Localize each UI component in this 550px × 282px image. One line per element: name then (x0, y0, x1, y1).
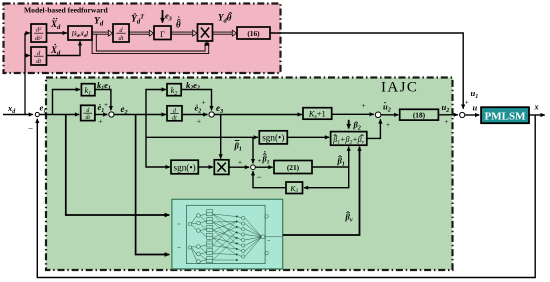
label xd (7, 103, 16, 115)
block sgn2 (171, 160, 198, 174)
label e1 (40, 103, 47, 115)
wire Xd-dot (47, 41, 81, 55)
svg-text:Γ: Γ (160, 29, 165, 39)
svg-text:(18): (18) (413, 111, 426, 120)
label e3 stub (165, 11, 172, 23)
label x (534, 103, 539, 112)
wire 21 to K3 (304, 167, 349, 188)
block mult2 (214, 160, 229, 175)
wire mult2 out (229, 166, 249, 168)
svg-text:+: + (386, 120, 390, 129)
label e1dot (98, 102, 105, 114)
block eq21 (274, 161, 312, 174)
svg-text:−: − (28, 124, 33, 134)
block k2 (167, 84, 181, 97)
plus above e3 (201, 98, 205, 107)
wire xd feed bus (25, 33, 30, 115)
NN internals (178, 210, 271, 264)
block d/dt g1 (81, 105, 95, 121)
wire e1 (40, 114, 79, 116)
wire e3 (214, 114, 301, 116)
block d2/dt2 (31, 24, 47, 42)
svg-text:+: + (238, 158, 242, 167)
block beta sum (331, 132, 367, 146)
wire K3 out (253, 171, 286, 188)
svg-text:β1+β2+βv: β1+β2+βv (332, 135, 364, 146)
svg-text:dt: dt (172, 115, 177, 121)
node beta1dot (251, 165, 256, 170)
minus e1 (28, 124, 33, 134)
label beta1hat (337, 156, 345, 168)
label u (473, 103, 478, 113)
plus beta1dot (257, 156, 261, 165)
block eq16 (237, 27, 270, 39)
label u2dot (383, 102, 391, 114)
label e3 (216, 103, 223, 115)
wire e1dot (95, 114, 107, 116)
wire e2 to k2 (146, 90, 166, 115)
svg-text:+: + (201, 98, 205, 107)
wire node to 18 (381, 114, 398, 116)
wire e2dot (182, 114, 208, 116)
wire k2e2 (181, 90, 211, 111)
svg-text:+: + (361, 101, 365, 110)
wire e3 stub (162, 10, 164, 23)
label Yd-theta (218, 12, 232, 24)
wire sgn2 out (198, 166, 213, 168)
NN hidden dots (236, 216, 238, 262)
plus under u2dot (386, 120, 390, 129)
IAJC box (46, 78, 453, 271)
svg-text:θ: θ (176, 20, 181, 30)
svg-text:dt: dt (86, 115, 91, 121)
wire u (465, 114, 479, 116)
svg-text:Model-based feedforward: Model-based feedforward (24, 6, 109, 15)
wire Xdd (47, 32, 67, 34)
wire u1 (270, 33, 463, 109)
svg-text:+: + (465, 98, 469, 107)
wire Yd double (92, 30, 113, 36)
label u1 (471, 88, 479, 100)
plus u1 (465, 98, 469, 107)
wire e1 to k1 (53, 90, 80, 115)
block d/dt pink2 (113, 24, 129, 42)
label k1e1 (97, 80, 111, 92)
svg-text:x: x (534, 103, 539, 112)
block Gamma (154, 26, 171, 40)
svg-text:+: + (197, 117, 201, 126)
svg-text:u: u (473, 103, 478, 113)
block multiply (198, 24, 213, 41)
svg-text:dt: dt (36, 58, 41, 65)
wire k1e1 (95, 90, 111, 111)
label k2e2 (186, 80, 200, 92)
wire xd input (3, 114, 33, 116)
plus below e3 (197, 117, 201, 126)
svg-text:sgn(•): sgn(•) (262, 133, 284, 143)
svg-text:[ẋd,ẍd]: [ẋd,ẍd] (72, 31, 88, 38)
wire theta double (171, 30, 197, 36)
label beta1bar (234, 141, 242, 153)
label betav (345, 212, 353, 224)
NN out layer circles (238, 215, 282, 259)
NN box (172, 199, 283, 269)
plus below e2 (98, 117, 102, 126)
svg-text:+: + (104, 100, 108, 109)
svg-text:sgn(•): sgn(•) (174, 162, 196, 172)
label theta-hat-dot (176, 16, 181, 29)
plus u2 (444, 117, 448, 126)
svg-text:IAJC: IAJC (381, 79, 418, 95)
wire to beta1dot node (252, 137, 254, 163)
plus mult2 (238, 158, 242, 167)
wire e2 (114, 114, 166, 116)
wire x out (529, 114, 545, 116)
label Yd (94, 17, 104, 28)
block Ks+1 (303, 108, 332, 121)
wire e2 to sgn2 (146, 115, 170, 168)
block eq18 (400, 109, 439, 120)
wire to sgn1 (146, 136, 258, 138)
block d/dt lower left (31, 47, 47, 65)
node e2 (109, 112, 114, 117)
block k1 (81, 84, 95, 97)
label e2dot (195, 103, 202, 115)
plus u2dot left (361, 101, 365, 110)
wire Ks to node (332, 113, 374, 115)
label Yd_T (131, 13, 144, 26)
label Xd-dot (50, 44, 61, 57)
wire sgn1 out (287, 136, 329, 138)
wire YdT double (129, 30, 154, 36)
wire Ydtheta double (213, 30, 237, 36)
wire feedback (37, 115, 535, 278)
wire beta2 stub (348, 120, 350, 129)
block sgn1 (259, 131, 287, 144)
wire e1 to NN (66, 115, 170, 216)
wire Yd feedback loop double (92, 34, 210, 53)
model-based feedforward box (4, 4, 281, 74)
svg-text:(16): (16) (247, 29, 260, 38)
wire NN out (283, 147, 360, 235)
node u2dot (375, 112, 381, 118)
NN fan lines (213, 214, 236, 260)
label Xdd (50, 18, 61, 31)
label beta2 (353, 120, 361, 132)
label beta1dot (262, 151, 270, 165)
wire e3 to mult2 (220, 115, 222, 159)
wire u2 (438, 114, 458, 116)
block xdot matrix (68, 26, 92, 40)
wire beta out (367, 119, 381, 138)
svg-text:+: + (257, 156, 261, 165)
label e2 (121, 104, 128, 116)
minus beta1dot (256, 172, 261, 182)
svg-text:PMLSM: PMLSM (485, 110, 527, 122)
node e1 (35, 112, 39, 116)
node u (460, 112, 465, 117)
wire 21 out up (312, 147, 349, 167)
plus above e2 (104, 100, 108, 109)
svg-text:dt: dt (119, 35, 124, 42)
svg-text:(21): (21) (287, 163, 300, 172)
svg-text:+: + (98, 117, 102, 126)
svg-text:−: − (256, 172, 261, 182)
block d/dt g2 (167, 106, 182, 122)
wire node to 21 (256, 166, 273, 168)
node e3 (209, 112, 214, 117)
svg-text:+: + (444, 117, 448, 126)
wire e2 to NN (136, 115, 170, 255)
label u2 (442, 102, 450, 114)
svg-text:Ks+1: Ks+1 (308, 109, 326, 121)
block K3 (286, 182, 303, 194)
block PMLSM (481, 107, 529, 123)
